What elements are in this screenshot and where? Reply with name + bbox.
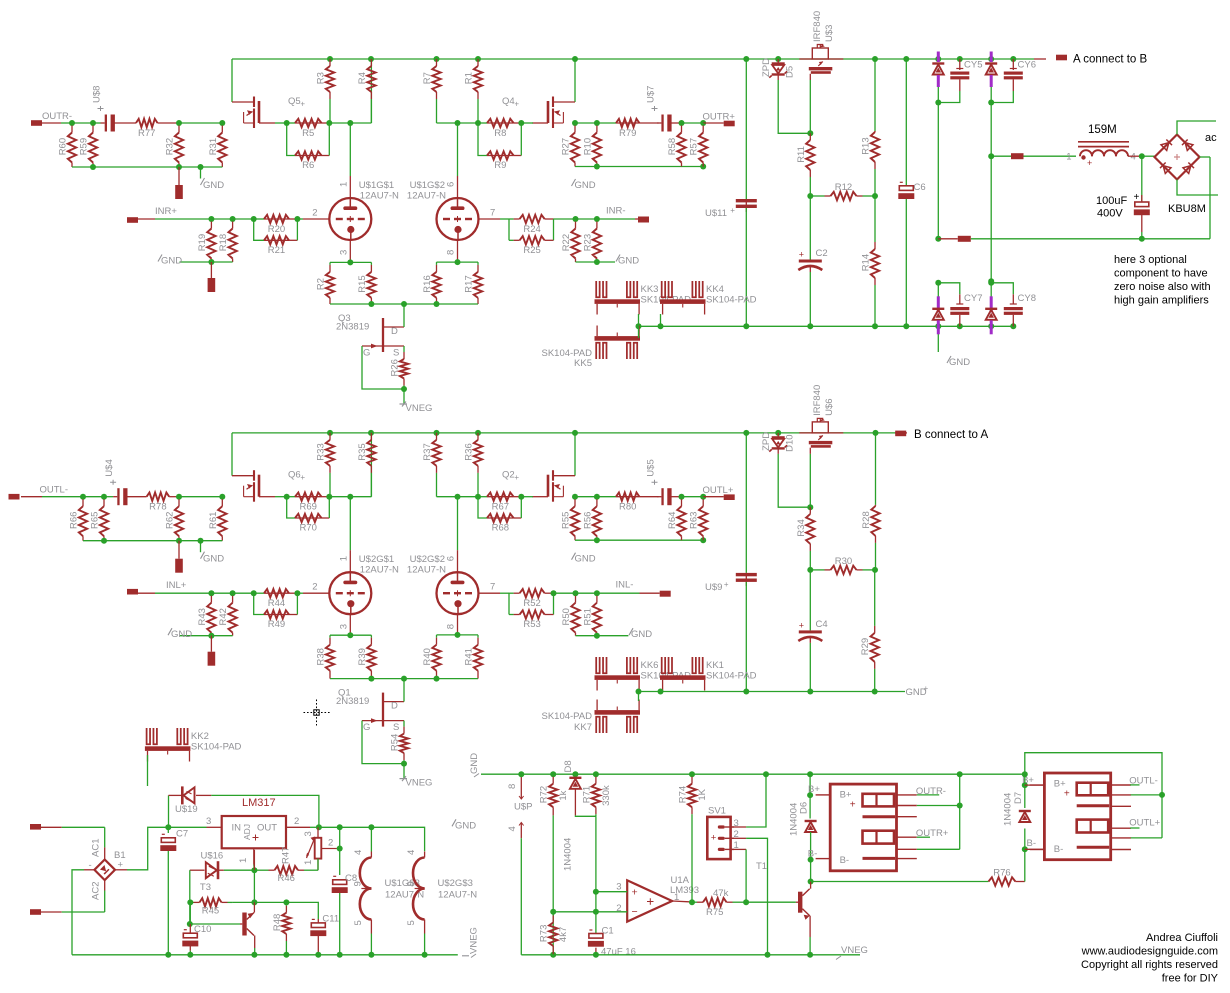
- wire: [1012, 294, 1014, 304]
- wire: [1025, 753, 1162, 795]
- heatsink KK6: [595, 657, 692, 691]
- svg-text:R52: R52: [523, 598, 540, 609]
- svg-text:12AU7-N: 12AU7-N: [360, 565, 399, 576]
- junction: [294, 590, 300, 596]
- resistor R15: [357, 262, 376, 304]
- wire: [1034, 58, 1046, 60]
- svg-text:U$P: U$P: [514, 802, 532, 813]
- wire: [1012, 79, 1014, 91]
- wire: [253, 865, 256, 871]
- capacitor U$11: [705, 199, 757, 219]
- svg-text:D5: D5: [785, 66, 796, 78]
- svg-text:R39: R39: [357, 648, 368, 665]
- svg-text:159M: 159M: [1088, 124, 1117, 136]
- svg-text:R18: R18: [218, 234, 229, 251]
- svg-text:R47: R47: [281, 847, 292, 864]
- wire: [322, 155, 330, 157]
- svg-text:VNEG: VNEG: [406, 403, 433, 414]
- svg-text:SK104-PAD: SK104-PAD: [706, 295, 757, 306]
- wire: [595, 948, 597, 955]
- capacitor C2: [798, 248, 827, 270]
- junction: [1022, 771, 1028, 777]
- svg-text:Copyright all rights reserved: Copyright all rights reserved: [1081, 959, 1218, 971]
- wire: [167, 851, 169, 955]
- svg-text:R72: R72: [539, 786, 550, 803]
- wire: [319, 826, 340, 828]
- svg-text:12AU7-N: 12AU7-N: [438, 890, 477, 901]
- capacitor U$4: [104, 459, 127, 505]
- net label OUTR-: [916, 786, 946, 797]
- junction: [872, 689, 878, 695]
- junction: [743, 56, 749, 62]
- wire: [597, 635, 629, 637]
- svg-text:1: 1: [338, 556, 349, 561]
- resistor R12: [810, 182, 875, 200]
- wire: [1200, 156, 1211, 158]
- resistor R76: [989, 868, 1016, 886]
- svg-text:R2: R2: [316, 278, 327, 290]
- svg-text:1k: 1k: [558, 790, 569, 800]
- wire: [809, 454, 811, 507]
- wire: [905, 199, 907, 326]
- wire: [322, 122, 330, 124]
- wire: [329, 122, 350, 124]
- wire: [731, 848, 747, 850]
- svg-text:GND: GND: [469, 753, 480, 774]
- purple mark: [990, 52, 993, 63]
- junction: [401, 301, 407, 307]
- svg-text:2: 2: [312, 582, 317, 593]
- pad INR-: [638, 217, 649, 223]
- junction: [988, 56, 994, 62]
- resistor R32: [165, 123, 184, 167]
- wire: [303, 592, 329, 594]
- junction: [198, 538, 204, 544]
- svg-text:R69: R69: [300, 502, 317, 513]
- pad jumper pad: [958, 236, 971, 242]
- wire: [104, 496, 113, 498]
- junction: [935, 100, 941, 106]
- svg-text:6: 6: [446, 556, 457, 561]
- svg-text:R56: R56: [582, 512, 593, 529]
- junction: [219, 120, 225, 126]
- wire: [330, 634, 371, 636]
- svg-text:Q4: Q4: [502, 96, 515, 107]
- wire: [457, 497, 459, 551]
- svg-text:U$8: U$8: [92, 86, 103, 103]
- junction: [80, 494, 86, 500]
- resistor R58: [667, 123, 686, 167]
- resistor R37: [422, 433, 441, 497]
- junction: [689, 771, 695, 777]
- junction: [873, 430, 879, 436]
- junction: [743, 430, 749, 436]
- ground: [200, 541, 202, 553]
- junction: [957, 323, 963, 329]
- wire: [370, 433, 372, 497]
- pad A connect to B: [1056, 55, 1067, 61]
- svg-text:R21: R21: [268, 245, 285, 256]
- wire: [254, 218, 264, 220]
- resistor R51: [582, 593, 601, 636]
- wire: [638, 692, 640, 702]
- svg-text:GND: GND: [631, 629, 652, 640]
- svg-text:R45: R45: [202, 905, 219, 916]
- svg-text:+: +: [850, 800, 856, 811]
- junction: [368, 56, 374, 62]
- wire: [328, 497, 330, 518]
- svg-text:KK1: KK1: [706, 660, 724, 671]
- resistor R18: [218, 219, 237, 262]
- triode U$1G$2: [407, 180, 495, 255]
- wire: [520, 838, 522, 955]
- wire: [635, 218, 638, 220]
- wire: [514, 155, 522, 157]
- svg-text:C10: C10: [194, 924, 211, 935]
- wire: [158, 122, 180, 124]
- wire: [169, 794, 183, 796]
- resistor R73: [539, 912, 570, 955]
- purple mark: [990, 75, 993, 87]
- svg-text:B-: B-: [840, 855, 850, 866]
- svg-text:R64: R64: [667, 512, 678, 529]
- junction: [401, 761, 407, 767]
- svg-text:R44: R44: [268, 598, 285, 609]
- wire: [62, 826, 105, 828]
- purple mark: [990, 320, 993, 334]
- wire: [959, 79, 961, 91]
- junction: [294, 216, 300, 222]
- net label CY6: [1018, 60, 1036, 71]
- svg-text:+: +: [799, 620, 804, 630]
- junction: [689, 899, 695, 905]
- svg-text:GND: GND: [203, 554, 224, 565]
- wire: [514, 496, 522, 498]
- svg-text:KK3: KK3: [641, 284, 659, 295]
- wire: [330, 678, 478, 680]
- net label CY8: [1018, 293, 1036, 304]
- wire: [286, 826, 310, 828]
- junction: [187, 921, 193, 927]
- wire: [93, 122, 101, 124]
- svg-text:2: 2: [294, 816, 299, 827]
- capacitor C4: [798, 619, 827, 641]
- diode U$19: [175, 786, 198, 815]
- svg-text:C4: C4: [816, 619, 828, 630]
- wire: [575, 814, 596, 817]
- svg-text:KBU8M: KBU8M: [1168, 203, 1206, 215]
- wire: [207, 826, 222, 828]
- tube heater U$1G$3: [352, 850, 424, 934]
- wire: [990, 103, 992, 282]
- VNEG power symbol: [400, 776, 433, 789]
- junction: [743, 689, 749, 695]
- junction: [284, 120, 290, 126]
- relay connector OUTR (B+/B-): [816, 784, 917, 871]
- resistor R75: [692, 898, 746, 918]
- svg-text:R60: R60: [58, 138, 69, 155]
- wire: [1161, 795, 1163, 838]
- wire: [991, 91, 1013, 103]
- svg-text:R22: R22: [561, 234, 572, 251]
- junction: [475, 56, 481, 62]
- svg-text:Andrea Ciuffoli: Andrea Ciuffoli: [1146, 932, 1218, 944]
- wire: [938, 238, 958, 240]
- wire: [339, 827, 341, 848]
- junction: [957, 56, 963, 62]
- svg-text:R54: R54: [390, 734, 401, 751]
- wire: [189, 951, 191, 955]
- svg-text:+: +: [300, 473, 305, 482]
- label 47k: [713, 888, 729, 899]
- svg-text:2N3819: 2N3819: [336, 696, 369, 707]
- svg-text:−: −: [632, 906, 638, 918]
- wire: [370, 934, 372, 955]
- junction: [658, 689, 664, 695]
- junction: [368, 952, 374, 958]
- wire: [254, 219, 264, 240]
- wire: [275, 122, 287, 124]
- junction: [636, 323, 642, 329]
- junction: [1022, 782, 1028, 788]
- capacitor C8: [332, 873, 357, 893]
- ground: [629, 628, 652, 640]
- wire VNEG rail (right): [521, 954, 860, 956]
- label KK5: [541, 348, 592, 369]
- junction: [368, 430, 374, 436]
- svg-text:+: +: [724, 580, 729, 589]
- wire: [72, 122, 93, 124]
- capacitor CY7 cap: [950, 304, 969, 315]
- wire: [1024, 829, 1026, 850]
- wire: [811, 881, 989, 883]
- junction: [90, 120, 96, 126]
- junction: [594, 590, 600, 596]
- pad pad AC in 2: [30, 909, 41, 915]
- wire: [1015, 881, 1024, 883]
- resistor R1: [464, 59, 483, 123]
- svg-text:R13: R13: [861, 137, 872, 154]
- svg-text:U$4: U$4: [104, 459, 115, 476]
- junction: [807, 504, 813, 510]
- wire: [61, 122, 72, 124]
- svg-text:47uF 16: 47uF 16: [601, 947, 636, 958]
- pad pad: [208, 278, 216, 292]
- wire: [349, 176, 351, 198]
- wire: [371, 827, 424, 851]
- wire: [178, 167, 180, 185]
- wire: [196, 794, 211, 796]
- wire: [575, 496, 597, 498]
- junction: [475, 430, 481, 436]
- wire: [254, 948, 256, 955]
- label B+: [808, 784, 820, 795]
- ground: [158, 255, 182, 267]
- svg-text:R29: R29: [860, 638, 871, 655]
- svg-text:R77: R77: [138, 128, 155, 139]
- svg-text:R74: R74: [678, 786, 689, 803]
- svg-text:R8: R8: [494, 128, 506, 139]
- svg-text:KK6: KK6: [641, 660, 659, 671]
- wire: [297, 592, 303, 594]
- svg-text:100uF: 100uF: [1096, 195, 1127, 207]
- wire: [479, 592, 501, 594]
- wire: [437, 496, 458, 498]
- wire: [500, 592, 509, 594]
- wire: [349, 123, 351, 176]
- junction: [807, 130, 813, 136]
- junction: [957, 771, 963, 777]
- resistor R21: [264, 236, 289, 256]
- wire: [703, 496, 724, 498]
- resistor R17: [464, 262, 483, 304]
- net label CY7: [964, 293, 982, 304]
- svg-text:+: +: [632, 887, 638, 899]
- svg-text:R19: R19: [197, 234, 208, 251]
- resistor R59: [79, 123, 98, 167]
- svg-text:U$2G$1: U$2G$1: [359, 554, 394, 565]
- resistor R2: [316, 262, 335, 304]
- wire: [660, 314, 662, 326]
- wire: [796, 901, 798, 903]
- resistor R30: [810, 556, 875, 574]
- junction: [230, 216, 236, 222]
- resistor R36: [464, 433, 483, 497]
- wire: [339, 893, 341, 955]
- resistor R34: [796, 507, 815, 570]
- wire: [809, 196, 811, 260]
- op-amp U1A LM393: [616, 875, 699, 922]
- svg-text:+: +: [1134, 192, 1140, 203]
- resistor R57: [689, 123, 708, 167]
- junction: [251, 952, 257, 958]
- wire: [253, 870, 255, 902]
- svg-text:GND: GND: [949, 357, 970, 368]
- wire: [317, 919, 319, 923]
- junction: [775, 56, 781, 62]
- resistor R26: [390, 346, 409, 389]
- resistor R52: [509, 589, 554, 609]
- wire: [211, 795, 319, 827]
- svg-text:12AU7-N: 12AU7-N: [407, 191, 446, 202]
- wire: [437, 261, 479, 263]
- junction: [594, 120, 600, 126]
- net label OUTR+: [703, 112, 736, 123]
- junction: [475, 494, 481, 500]
- wire VNEG rail (left): [72, 954, 458, 956]
- resistor R60: [58, 123, 77, 167]
- junction: [550, 771, 556, 777]
- wire: [1141, 156, 1143, 201]
- wire: [959, 774, 961, 805]
- wire: [576, 635, 597, 637]
- junction: [593, 771, 599, 777]
- svg-text:INR-: INR-: [606, 206, 626, 217]
- wire: [597, 218, 635, 220]
- wire: [458, 496, 479, 498]
- svg-text:B-: B-: [1027, 838, 1037, 849]
- svg-text:R27: R27: [561, 138, 572, 155]
- junction: [176, 538, 182, 544]
- ground: [616, 255, 639, 267]
- svg-text:KK7: KK7: [574, 722, 592, 733]
- resistor R22: [561, 219, 580, 262]
- wire: [297, 218, 303, 220]
- wire: [457, 550, 459, 572]
- resistor R56: [582, 497, 601, 541]
- wire: [1012, 315, 1014, 326]
- svg-text:R23: R23: [582, 234, 593, 251]
- pad OUTR+: [724, 121, 735, 127]
- voltage regulator IC1 LM317: [206, 816, 299, 863]
- svg-text:R49: R49: [268, 619, 285, 630]
- capacitor C6: [898, 182, 925, 199]
- resistor R80: [616, 493, 639, 513]
- resistor R61: [208, 497, 227, 541]
- wire: [575, 122, 597, 124]
- wire: [746, 774, 766, 827]
- svg-text:U$9: U$9: [705, 582, 722, 593]
- junction: [807, 689, 813, 695]
- junction: [187, 952, 193, 958]
- wire: [597, 122, 616, 124]
- wire: [1012, 59, 1014, 70]
- junction: [347, 120, 353, 126]
- resistor R20: [264, 215, 289, 235]
- wire: [937, 87, 939, 103]
- net label OUTL+: [703, 485, 734, 496]
- wire: [72, 870, 84, 955]
- svg-text:4: 4: [406, 850, 417, 855]
- wire: [574, 59, 576, 102]
- svg-text:+: +: [1064, 789, 1070, 800]
- resistor R7: [422, 59, 441, 123]
- svg-text:ZPD: ZPD: [761, 58, 772, 77]
- wire: [322, 496, 330, 498]
- junction: [808, 879, 814, 885]
- junction: [251, 867, 257, 873]
- resistor R9: [487, 151, 514, 171]
- resistor R6: [295, 151, 322, 171]
- wire: [671, 496, 682, 498]
- resistor R40: [422, 635, 441, 679]
- wire: [778, 454, 810, 507]
- junction: [572, 56, 578, 62]
- wire B+ rail: [232, 58, 1034, 60]
- svg-text:GND: GND: [455, 820, 476, 831]
- ground: [452, 819, 476, 831]
- junction: [337, 846, 343, 852]
- svg-text:6: 6: [446, 182, 457, 187]
- opamp power pins U$P: [507, 774, 532, 838]
- resistor R11: [796, 133, 815, 196]
- junction: [872, 193, 878, 199]
- relay connector OUTL (B+/B-): [1030, 773, 1131, 860]
- wire: [340, 826, 372, 828]
- junction: [368, 824, 374, 830]
- wire: [554, 592, 576, 594]
- resistor R71: [581, 774, 612, 816]
- junction: [807, 567, 813, 573]
- svg-text:U$16: U$16: [201, 851, 224, 862]
- wire: [1128, 155, 1142, 157]
- junction: [251, 590, 257, 596]
- capacitor 100uF 400V: [1134, 202, 1150, 215]
- svg-text:Q2: Q2: [502, 470, 515, 481]
- wire: [403, 764, 405, 779]
- junction: [594, 494, 600, 500]
- wire: [809, 795, 811, 818]
